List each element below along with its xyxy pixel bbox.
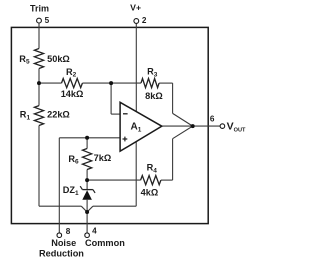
svg-text:8kΩ: 8kΩ bbox=[145, 91, 163, 101]
svg-text:Common: Common bbox=[85, 238, 125, 248]
svg-text:22kΩ: 22kΩ bbox=[47, 110, 70, 120]
svg-text:14kΩ: 14kΩ bbox=[61, 89, 84, 99]
svg-text:5: 5 bbox=[45, 16, 50, 25]
svg-text:50kΩ: 50kΩ bbox=[47, 54, 70, 64]
svg-text:V+: V+ bbox=[130, 2, 141, 12]
svg-text:2: 2 bbox=[142, 16, 147, 25]
svg-text:4: 4 bbox=[92, 227, 97, 236]
svg-text:Reduction: Reduction bbox=[39, 248, 84, 258]
svg-text:8: 8 bbox=[66, 227, 71, 236]
svg-text:4kΩ: 4kΩ bbox=[141, 188, 159, 198]
svg-text:Noise: Noise bbox=[51, 238, 76, 248]
svg-text:Trim: Trim bbox=[30, 4, 49, 14]
svg-text:6: 6 bbox=[210, 115, 215, 124]
svg-text:7kΩ: 7kΩ bbox=[94, 153, 112, 163]
